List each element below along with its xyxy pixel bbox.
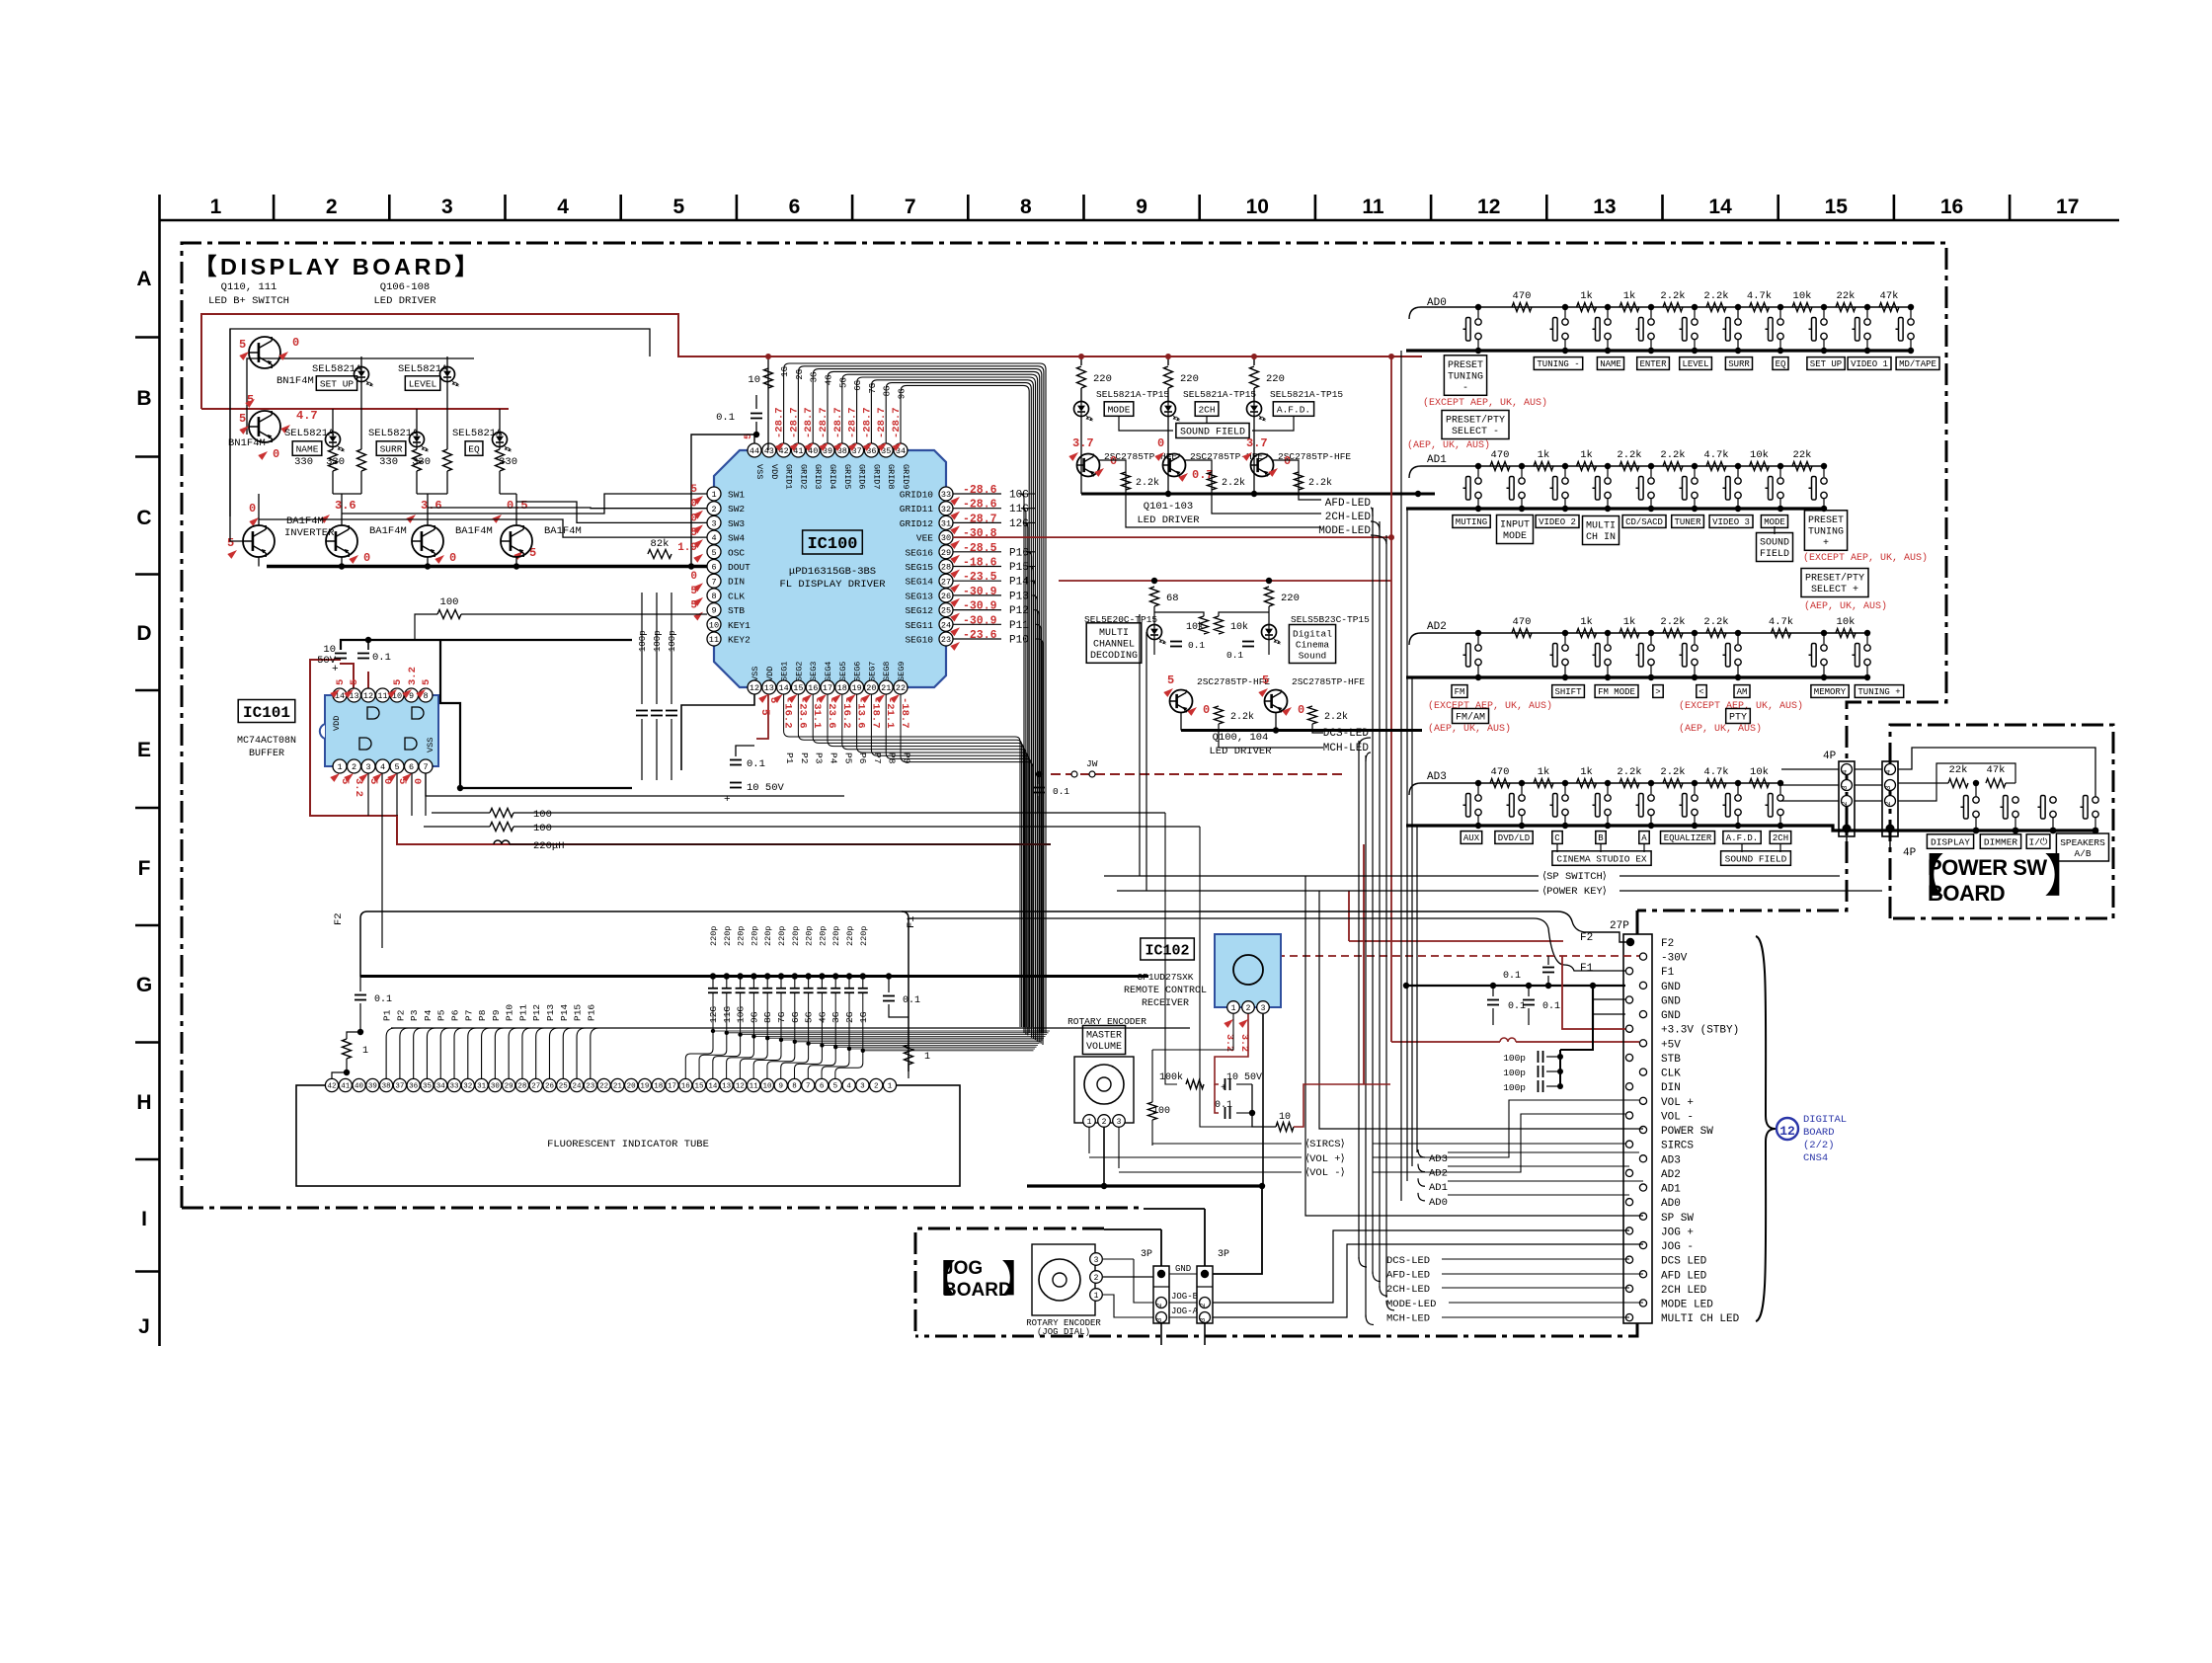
pty box	[1726, 709, 1751, 724]
svg-text:2: 2	[352, 762, 356, 772]
svg-text:SEG6: SEG6	[853, 662, 863, 681]
svg-text:1: 1	[337, 762, 342, 772]
wire 330 bottoms to collectors	[332, 471, 334, 494]
svg-text:3.6: 3.6	[421, 499, 442, 513]
svg-text:PRESET/PTY: PRESET/PTY	[1446, 415, 1505, 427]
svg-text:9G: 9G	[898, 388, 908, 399]
svg-text:27P: 27P	[1610, 920, 1629, 932]
LEDs mode/2ch/afd	[1074, 402, 1089, 417]
svg-text:27: 27	[941, 577, 951, 587]
IC100 bottom pins	[748, 680, 761, 694]
svg-text:SEG1: SEG1	[780, 662, 790, 681]
svg-text:4P: 4P	[1903, 847, 1917, 859]
svg-text:44: 44	[750, 446, 759, 456]
wire vss bottom	[681, 694, 754, 770]
row tick	[135, 689, 159, 692]
svg-text:GRID11: GRID11	[900, 504, 934, 515]
IC101 body	[325, 695, 438, 766]
svg-text:SEG11: SEG11	[905, 620, 933, 631]
svg-text:F2: F2	[1661, 938, 1674, 950]
svg-text:FLUORESCENT INDICATOR TUBE: FLUORESCENT INDICATOR TUBE	[547, 1139, 709, 1150]
svg-text:3P: 3P	[1218, 1249, 1229, 1260]
svg-text:SEG12: SEG12	[905, 605, 933, 616]
svg-text:330: 330	[294, 456, 313, 468]
svg-text:C: C	[1554, 833, 1560, 843]
svg-text:+: +	[332, 664, 339, 675]
input mode box	[1497, 515, 1534, 544]
transistor Q BA1F4M 3	[412, 525, 443, 557]
svg-text:1k: 1k	[1580, 449, 1593, 461]
27P pin STB	[1625, 1054, 1632, 1061]
svg-text:2: 2	[1102, 1118, 1107, 1127]
svg-text:16: 16	[1940, 196, 1963, 218]
svg-text:AD1: AD1	[1661, 1184, 1681, 1196]
svg-text:33: 33	[450, 1083, 460, 1091]
IC102 body	[1215, 934, 1281, 1007]
svg-text:100: 100	[533, 823, 552, 834]
svg-text:31: 31	[477, 1083, 487, 1091]
svg-text:AM: AM	[1737, 687, 1748, 697]
svg-text:VIDEO 1: VIDEO 1	[1851, 359, 1888, 369]
svg-text:2.2k: 2.2k	[1660, 616, 1685, 628]
svg-text:8: 8	[792, 1083, 797, 1091]
svg-text:100k: 100k	[1159, 1071, 1183, 1083]
svg-text:LED B+ SWITCH: LED B+ SWITCH	[208, 295, 289, 307]
svg-text:220p: 220p	[805, 926, 815, 946]
svg-text:0.1: 0.1	[372, 652, 391, 664]
svg-text:0.1: 0.1	[747, 758, 765, 770]
svg-text:SEG10: SEG10	[905, 635, 933, 646]
column tick	[1430, 195, 1433, 220]
svg-text:-23.5: -23.5	[963, 571, 997, 584]
svg-text:F2: F2	[333, 912, 345, 925]
svg-text:A.F.D.: A.F.D.	[1277, 404, 1310, 415]
transistors 2SC2785 x3	[1077, 454, 1100, 477]
svg-text:5: 5	[1167, 673, 1174, 687]
svg-text:22k: 22k	[1793, 449, 1812, 461]
svg-text:H: H	[136, 1091, 151, 1114]
svg-text:2SC2785TP-HFE: 2SC2785TP-HFE	[1197, 676, 1270, 687]
svg-text:12: 12	[1779, 1124, 1795, 1139]
connector 4P #1	[1839, 761, 1855, 836]
svg-text:21: 21	[881, 683, 891, 693]
svg-text:+: +	[1221, 1083, 1226, 1094]
svg-text:11: 11	[709, 635, 719, 645]
svg-text:Digital: Digital	[1293, 628, 1332, 639]
svg-text:14: 14	[708, 1083, 718, 1091]
svg-text:0: 0	[1110, 454, 1117, 468]
red B+ wire top	[201, 314, 1422, 409]
svg-text:3G: 3G	[810, 372, 820, 383]
IC102 pins	[1227, 1001, 1240, 1014]
emitter bus q101-103 thick	[1081, 493, 1435, 496]
svg-text:1.9: 1.9	[677, 542, 697, 554]
27P pin F2	[1626, 938, 1634, 946]
svg-text:2.2k: 2.2k	[1703, 290, 1728, 302]
svg-text:15: 15	[695, 1083, 705, 1091]
fm/am box	[1453, 709, 1489, 724]
jog board border	[915, 1228, 1104, 1336]
svg-text:5: 5	[672, 196, 684, 218]
svg-text:220p: 220p	[750, 926, 759, 946]
red dashed line jw	[1051, 773, 1343, 775]
svg-text:P8: P8	[477, 1009, 488, 1021]
svg-text:VSS: VSS	[750, 667, 760, 681]
red vertical x1381	[1363, 844, 1365, 1084]
svg-text:82k: 82k	[651, 538, 670, 550]
wires ic101 to right	[426, 773, 844, 796]
svg-text:4.7k: 4.7k	[1703, 449, 1728, 461]
svg-text:220p: 220p	[723, 926, 733, 946]
svg-text:SW3: SW3	[728, 518, 745, 529]
bus AD1 bottom thick	[1406, 507, 1824, 510]
svg-text:OSC: OSC	[728, 547, 745, 558]
red +5V line with inductor	[1391, 1041, 1500, 1043]
svg-text:470: 470	[1513, 290, 1532, 302]
27P pin JOG +	[1625, 1227, 1632, 1234]
resistor 100 over ic	[437, 610, 461, 619]
svg-text:IC101: IC101	[243, 704, 290, 722]
resistors AD3	[1490, 779, 1510, 788]
svg-text:AFD-LED: AFD-LED	[1386, 1270, 1430, 1282]
27P pin +5V	[1639, 1040, 1646, 1047]
svg-text:SPEAKERS: SPEAKERS	[2060, 837, 2105, 848]
svg-text:(EXCEPT AEP, UK, AUS): (EXCEPT AEP, UK, AUS)	[1423, 397, 1547, 409]
svg-text:P4: P4	[829, 752, 839, 764]
svg-text:14: 14	[778, 683, 788, 693]
column tick	[967, 195, 970, 220]
transistor Q BA1F4M inverter	[243, 525, 275, 557]
IC101 label	[238, 700, 295, 723]
svg-text:3.7: 3.7	[1246, 436, 1268, 450]
red top horizontal y953	[1349, 940, 1563, 942]
svg-text:470: 470	[1491, 449, 1510, 461]
svg-text:-28.7: -28.7	[963, 513, 997, 525]
svg-text:-28.6: -28.6	[963, 499, 997, 512]
svg-text:2CH-LED: 2CH-LED	[1325, 512, 1372, 523]
svg-text:VOL +: VOL +	[1661, 1097, 1694, 1109]
svg-text:2CH: 2CH	[1198, 404, 1215, 415]
svg-text:10k: 10k	[1750, 766, 1769, 778]
resistors AD2	[1512, 629, 1532, 638]
wire ad0 right down	[1911, 292, 1926, 307]
svg-text:GND: GND	[1175, 1264, 1191, 1274]
svg-text:SOUND FIELD: SOUND FIELD	[1725, 853, 1787, 864]
svg-text:BN1F4M: BN1F4M	[228, 437, 266, 449]
svg-text:VIDEO 2: VIDEO 2	[1539, 517, 1576, 527]
svg-text:A: A	[136, 268, 151, 290]
svg-text:22k: 22k	[1949, 764, 1968, 776]
27P pin VOL +	[1639, 1097, 1646, 1104]
svg-text:5: 5	[349, 679, 360, 685]
svg-text:SEG3: SEG3	[809, 662, 819, 681]
svg-text:SEG4: SEG4	[824, 662, 833, 681]
svg-text:13: 13	[722, 1083, 732, 1091]
svg-text:MCH-LED: MCH-LED	[1323, 743, 1370, 754]
svg-text:2: 2	[1842, 801, 1850, 806]
svg-text:3: 3	[1117, 1118, 1122, 1127]
resistor 220 q104	[1265, 587, 1274, 606]
svg-text:2: 2	[711, 505, 716, 515]
svg-text:VOL -: VOL -	[1661, 1111, 1694, 1123]
svg-text:KEY1: KEY1	[728, 620, 750, 631]
column tick	[1082, 195, 1085, 220]
svg-text:2.2k: 2.2k	[1230, 711, 1254, 723]
svg-text:MODE: MODE	[1108, 404, 1131, 415]
svg-text:MD/TAPE: MD/TAPE	[1899, 359, 1936, 369]
transistor Q110 BN1F4M	[249, 337, 280, 368]
svg-text:P4: P4	[423, 1009, 434, 1021]
svg-text:P6: P6	[450, 1009, 461, 1021]
svg-text:0: 0	[690, 499, 697, 511]
svg-text:1k: 1k	[1538, 449, 1550, 461]
circled 12	[1777, 1118, 1798, 1140]
column tick	[1198, 195, 1201, 220]
27P pin AD1	[1639, 1184, 1646, 1191]
svg-text:CHANNEL: CHANNEL	[1093, 639, 1135, 650]
svg-text:P5: P5	[436, 1009, 447, 1021]
svg-text:SEG16: SEG16	[905, 547, 933, 558]
svg-text:3.2: 3.2	[1224, 1034, 1234, 1052]
column tick	[736, 195, 739, 220]
svg-text:SET UP: SET UP	[320, 378, 355, 389]
svg-text:2: 2	[1885, 801, 1893, 806]
svg-text:2: 2	[1094, 1274, 1099, 1283]
svg-text:220p: 220p	[845, 926, 855, 946]
wires LED tops to red bus	[360, 356, 362, 367]
27P pin F1	[1625, 968, 1632, 975]
svg-text:5: 5	[758, 709, 770, 716]
27P pin SIRCS	[1625, 1141, 1632, 1148]
red B+ wire row2	[201, 408, 509, 410]
svg-text:SURR: SURR	[380, 443, 403, 454]
svg-text:3: 3	[1200, 1317, 1208, 1322]
svg-text:SEG14: SEG14	[905, 577, 933, 588]
wire gray frame	[230, 329, 650, 516]
red bus led driver	[1080, 356, 1082, 363]
svg-text:GRID4: GRID4	[828, 464, 837, 490]
svg-text:5G: 5G	[838, 377, 848, 388]
27P connector body	[1623, 934, 1652, 1323]
connector 4P #2	[1882, 761, 1898, 836]
svg-text:26: 26	[941, 592, 951, 601]
row tick	[135, 1270, 159, 1273]
svg-text:2G: 2G	[795, 369, 805, 380]
svg-text:2.2k: 2.2k	[1308, 477, 1332, 489]
27P pin JOG -	[1639, 1241, 1646, 1248]
svg-text:220: 220	[1281, 593, 1300, 604]
svg-text:GRID9: GRID9	[901, 464, 910, 490]
svg-text:2: 2	[1156, 1303, 1164, 1307]
svg-text:9: 9	[1136, 196, 1147, 218]
svg-text:2.2k: 2.2k	[1617, 449, 1641, 461]
svg-text:JOG-B: JOG-B	[1171, 1292, 1199, 1302]
svg-text:22: 22	[599, 1083, 608, 1091]
svg-text:C: C	[136, 507, 151, 529]
svg-text:-30.8: -30.8	[963, 527, 997, 540]
svg-text:20: 20	[627, 1083, 637, 1091]
svg-text:DCS LED: DCS LED	[1661, 1256, 1707, 1268]
svg-text:P1: P1	[784, 752, 795, 764]
resistors AD0	[1512, 303, 1532, 312]
27P pin 2CH LED	[1625, 1285, 1632, 1292]
svg-text:4.7: 4.7	[296, 409, 318, 423]
svg-text:29: 29	[505, 1083, 513, 1091]
jog- wire	[1213, 1244, 1643, 1317]
column tick	[1893, 195, 1896, 220]
left ruler line	[158, 195, 161, 1346]
svg-text:2CH-LED: 2CH-LED	[1386, 1284, 1430, 1296]
led wires down to transistors	[1080, 417, 1082, 494]
svg-text:SOUND: SOUND	[1760, 538, 1789, 549]
top ruler line	[159, 219, 2119, 222]
svg-text:100p: 100p	[638, 630, 648, 652]
svg-text:SELECT +: SELECT +	[1811, 585, 1858, 595]
svg-text:0: 0	[363, 551, 370, 565]
svg-text:SET UP: SET UP	[1810, 359, 1842, 369]
switches AD0	[1475, 304, 1481, 310]
svg-text:3.6: 3.6	[335, 499, 356, 513]
svg-text:SEL5821A-TP15: SEL5821A-TP15	[1183, 389, 1256, 400]
svg-text:P2: P2	[799, 752, 810, 764]
svg-text:220: 220	[1093, 373, 1112, 385]
svg-text:7G: 7G	[868, 383, 878, 394]
svg-text:JOG +: JOG +	[1661, 1227, 1694, 1238]
inductor 220uH	[494, 840, 510, 844]
column tick	[1777, 195, 1779, 220]
svg-text:AD1: AD1	[1429, 1182, 1448, 1194]
svg-text:F1: F1	[906, 915, 917, 928]
svg-text:5: 5	[690, 527, 697, 539]
svg-text:VSS: VSS	[426, 738, 435, 752]
cap 0.1 f1	[883, 995, 895, 997]
column tick	[1661, 195, 1664, 220]
column tick	[504, 195, 507, 220]
svg-text:F1: F1	[1580, 963, 1594, 975]
svg-text:330: 330	[499, 456, 517, 468]
bus AD3 bottom thick	[1406, 824, 1780, 827]
ic102 wiring	[1151, 1050, 1153, 1102]
svg-text:5: 5	[392, 679, 404, 685]
svg-text:VEE: VEE	[916, 533, 933, 544]
svg-text:SEL5821A-TP15: SEL5821A-TP15	[1096, 389, 1169, 400]
svg-text:5: 5	[1262, 673, 1269, 687]
svg-text:GRID12: GRID12	[900, 518, 934, 529]
resistor 1 f2	[343, 1039, 352, 1059]
svg-text:POWER SW: POWER SW	[1928, 855, 2047, 880]
bus AD1 top	[1409, 466, 1824, 478]
bus q100 red	[1059, 580, 1391, 582]
svg-text:JOG: JOG	[943, 1258, 983, 1279]
svg-text:-28.5: -28.5	[963, 542, 997, 555]
drop 100 line2 to 10res	[1200, 827, 1276, 1127]
svg-text:AD3: AD3	[1427, 771, 1447, 783]
svg-text:13: 13	[764, 683, 774, 693]
psb wire top loop	[1898, 748, 2095, 797]
svg-text:A: A	[1641, 833, 1647, 843]
svg-text:2.2k: 2.2k	[1660, 290, 1685, 302]
svg-text:STB: STB	[1661, 1054, 1681, 1066]
wire F1 long	[908, 918, 1625, 971]
svg-text:BA1F4M: BA1F4M	[369, 525, 407, 537]
svg-text:4: 4	[711, 533, 716, 543]
svg-text:100: 100	[440, 596, 459, 608]
svg-text:VSS: VSS	[754, 464, 764, 479]
svg-text:31: 31	[941, 518, 951, 528]
svg-text:JOG -: JOG -	[1661, 1241, 1694, 1253]
drop 100 line to 100k	[1165, 813, 1177, 1084]
svg-text:SEL5821A-TP15: SEL5821A-TP15	[1270, 389, 1343, 400]
svg-text:MUTING: MUTING	[1456, 517, 1487, 527]
svg-text:16: 16	[681, 1083, 691, 1091]
cap 0.1 under jw	[1033, 787, 1045, 789]
gnd bus drops to pins	[1592, 986, 1594, 1029]
svg-text:24: 24	[573, 1083, 583, 1091]
27P pin POWER SW	[1639, 1126, 1646, 1133]
svg-text:J: J	[138, 1315, 150, 1338]
svg-text:220p: 220p	[818, 926, 828, 946]
jog wires	[1103, 1258, 1134, 1260]
svg-text:AD0: AD0	[1661, 1198, 1681, 1210]
resistor 68	[1150, 587, 1159, 606]
svg-text:10: 10	[748, 374, 760, 386]
svg-text:10k: 10k	[1186, 621, 1204, 633]
27P pin MODE LED	[1639, 1300, 1646, 1307]
IC100 label	[803, 530, 863, 554]
wire vss left	[691, 435, 754, 567]
svg-text:-18.6: -18.6	[963, 557, 997, 570]
svg-text:0: 0	[273, 447, 279, 461]
wire pin41 up	[345, 1071, 347, 1073]
wires master volume down	[1088, 1127, 1090, 1153]
10k resistors + 0.1 caps	[1200, 616, 1209, 634]
svg-text:100p: 100p	[1503, 1082, 1526, 1093]
svg-text:220: 220	[1180, 373, 1199, 385]
svg-text:16: 16	[808, 683, 818, 693]
IC100 grid nested arcs to right bundle	[784, 363, 1046, 1033]
svg-text:⟨POWER KEY⟩: ⟨POWER KEY⟩	[1542, 885, 1607, 898]
svg-text:470: 470	[1513, 616, 1532, 628]
svg-text:2: 2	[1246, 1004, 1251, 1013]
gnd bus into connector	[1407, 985, 1625, 987]
svg-text:F: F	[138, 857, 151, 880]
svg-text:3: 3	[1261, 1004, 1266, 1013]
transistor Q BA1F4M 2	[326, 525, 357, 557]
27P pin GND	[1625, 996, 1632, 1003]
27P pin AD2	[1625, 1169, 1632, 1176]
preset/pty select - box	[1442, 411, 1509, 439]
svg-text:DCS-LED: DCS-LED	[1386, 1255, 1430, 1267]
svg-text:3P: 3P	[1141, 1249, 1152, 1260]
svg-text:0: 0	[449, 551, 456, 565]
led mch	[1147, 625, 1162, 640]
svg-text:GRID3: GRID3	[813, 464, 823, 490]
svg-text:7: 7	[711, 577, 716, 587]
svg-text:DECODING: DECODING	[1090, 651, 1138, 662]
svg-text:P7: P7	[463, 1010, 474, 1021]
svg-text:220p: 220p	[763, 926, 773, 946]
svg-text:34: 34	[436, 1083, 446, 1091]
svg-text:10 50V: 10 50V	[747, 782, 785, 794]
svg-text:5: 5	[239, 412, 246, 426]
row tick	[135, 573, 159, 576]
switches AD3	[1475, 780, 1481, 786]
svg-text:10: 10	[762, 1083, 772, 1091]
svg-text:TUNING -: TUNING -	[1537, 359, 1579, 369]
svg-text:30: 30	[491, 1083, 501, 1091]
svg-text:CINEMA STUDIO EX: CINEMA STUDIO EX	[1556, 853, 1647, 864]
svg-text:【DISPLAY BOARD】: 【DISPLAY BOARD】	[194, 254, 481, 279]
